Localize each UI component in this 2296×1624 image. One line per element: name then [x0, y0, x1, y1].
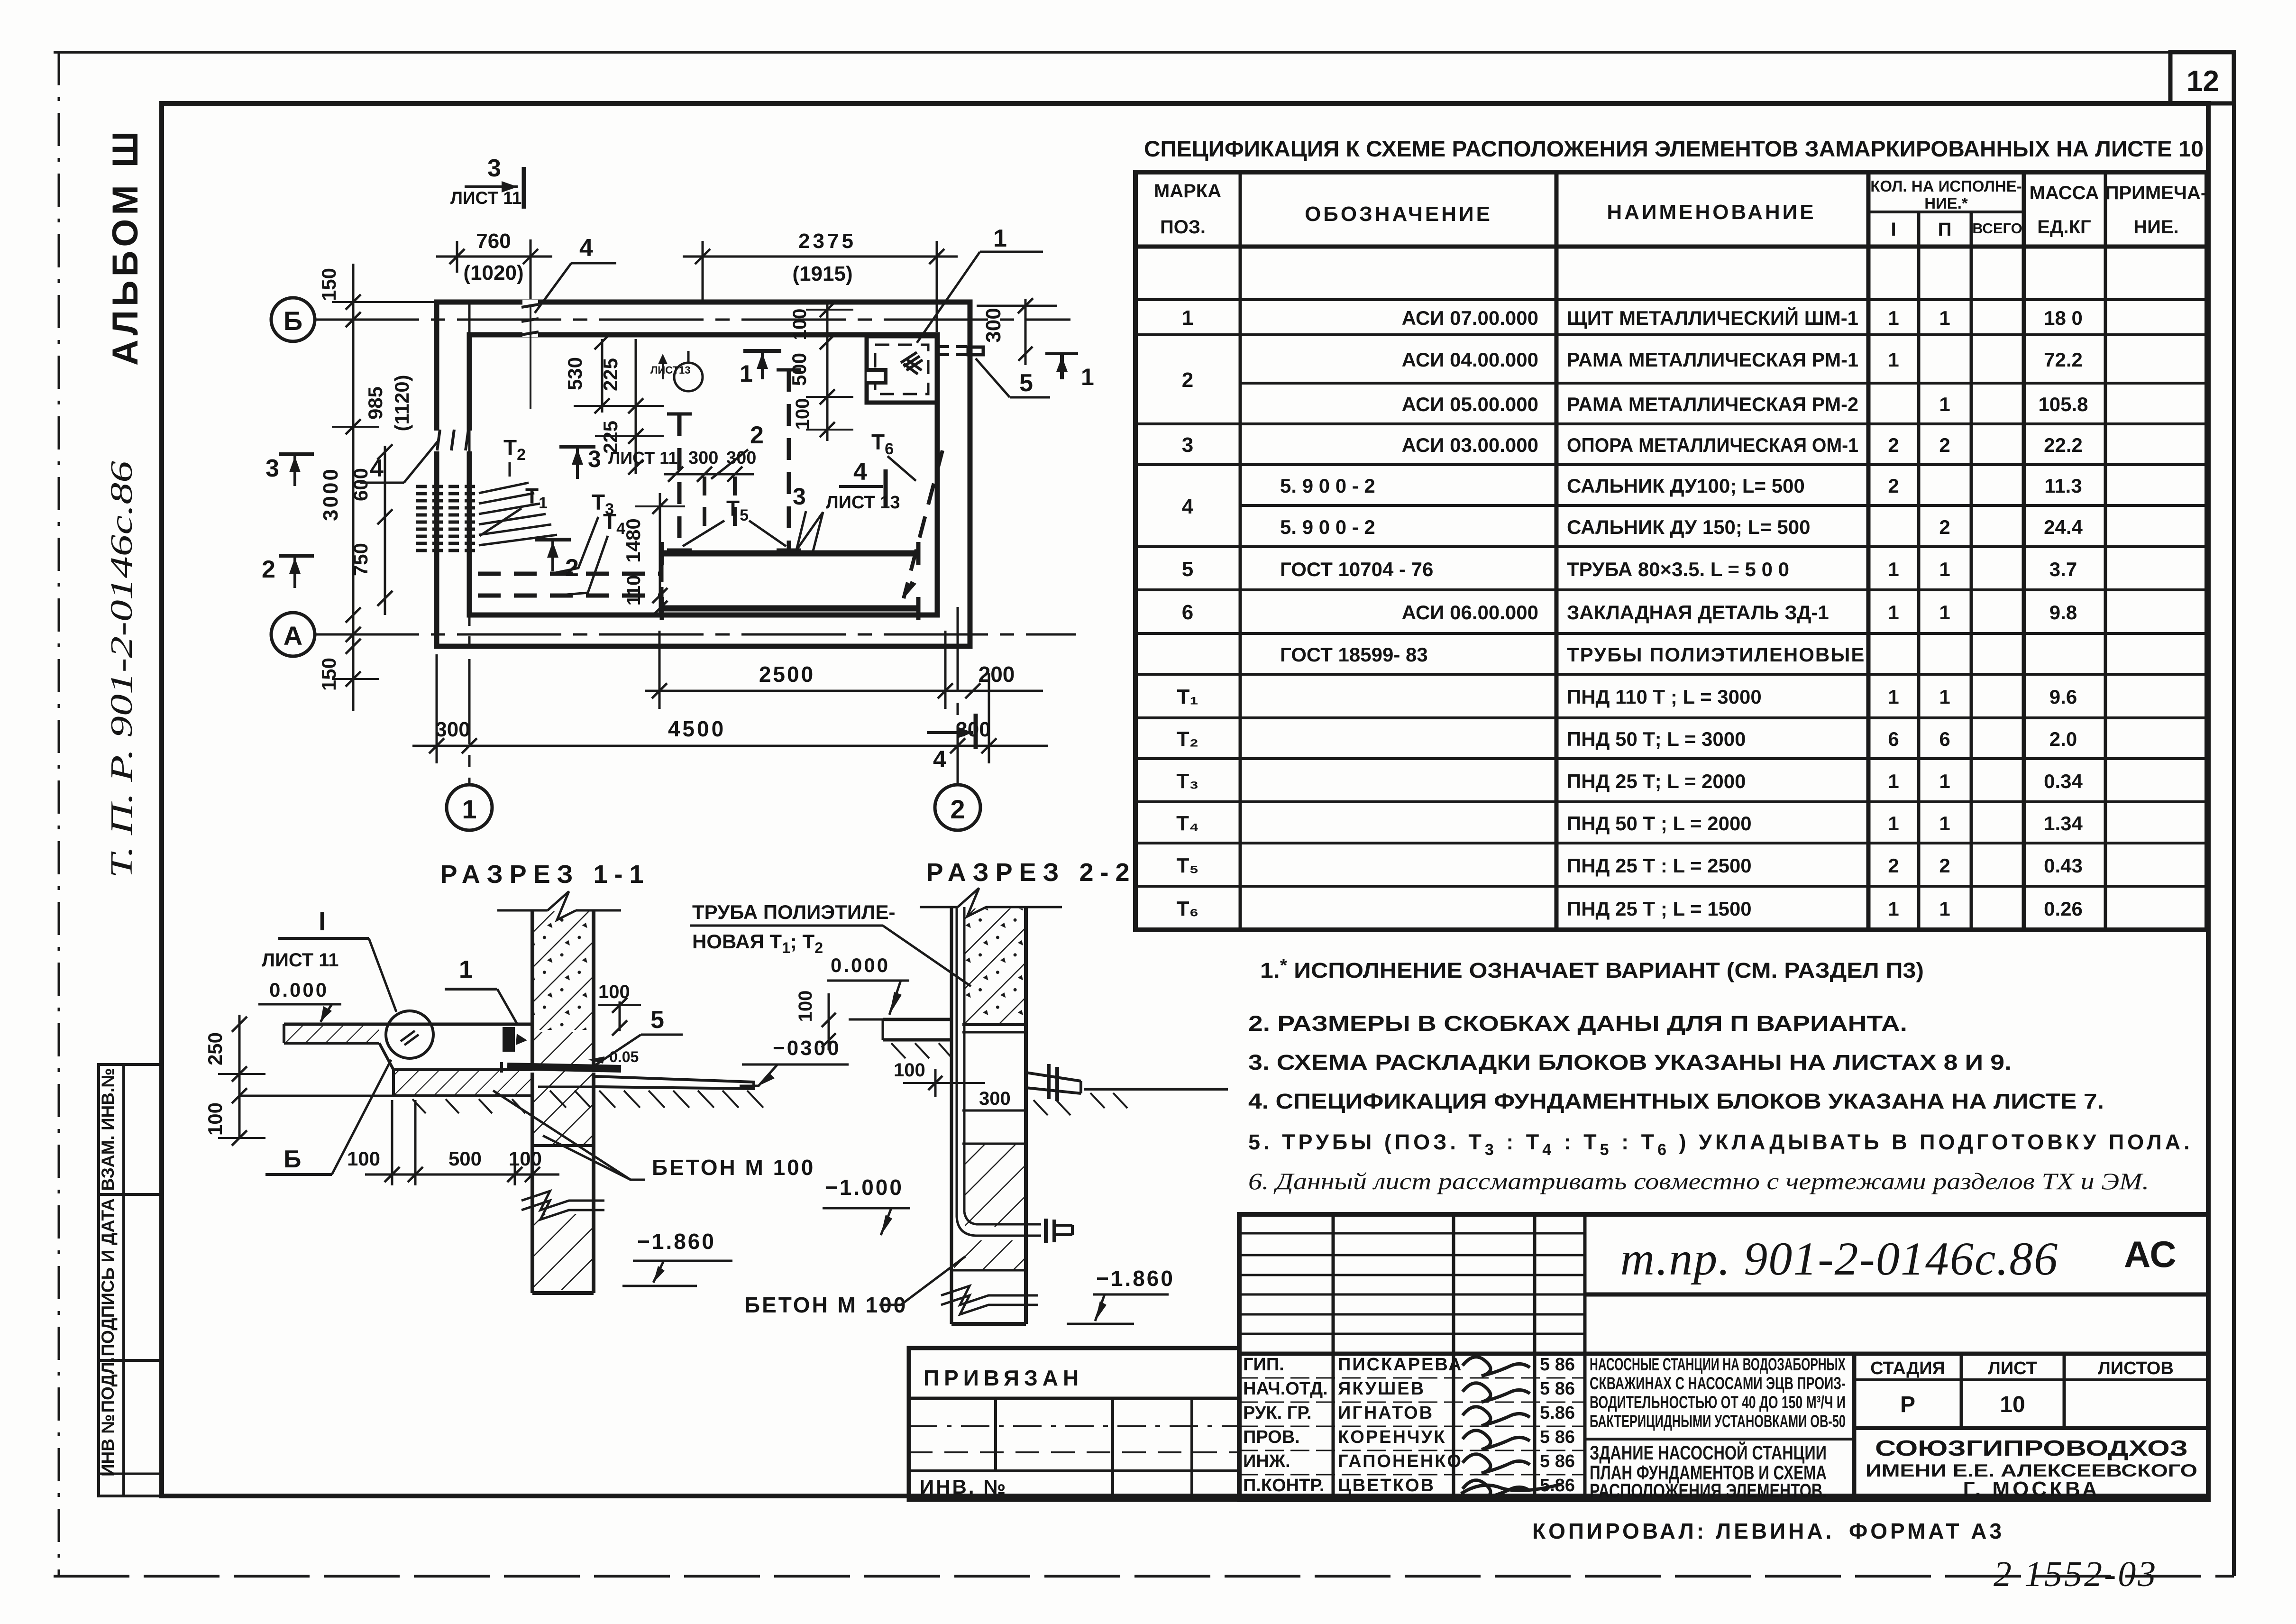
svg-text:2: 2	[1939, 854, 1950, 877]
svg-text:ПОЗ.: ПОЗ.	[1160, 217, 1206, 238]
opening extension line	[530, 306, 531, 409]
svg-text:4500: 4500	[668, 716, 726, 741]
svg-text:100: 100	[792, 398, 813, 430]
sheet number box	[2170, 52, 2234, 103]
svg-text:300: 300	[726, 448, 756, 468]
pipe flange bottom	[1044, 1219, 1048, 1243]
svg-text:5 86: 5 86	[1540, 1427, 1575, 1447]
dim 100 500 100 bottom	[391, 1100, 393, 1185]
page outer border right	[2232, 52, 2236, 1576]
svg-text:4: 4	[933, 746, 946, 772]
svg-text:2. РАЗМЕРЫ В СКОБКАХ ДАНЫ ДЛЯ: 2. РАЗМЕРЫ В СКОБКАХ ДАНЫ ДЛЯ П ВАРИАНТА…	[1248, 1011, 1907, 1036]
section 2-2 concrete hatch top	[965, 908, 1025, 1023]
svg-text:300: 300	[435, 718, 470, 741]
section 2-2 floor level lines inside column	[962, 1023, 1026, 1026]
svg-text:5.86: 5.86	[1540, 1403, 1575, 1423]
svg-text:3: 3	[588, 446, 601, 472]
section 2-2 floor left	[883, 1018, 951, 1021]
svg-text:Г. МОСКВА: Г. МОСКВА	[1963, 1477, 2100, 1501]
section 1-1 column top break	[497, 909, 548, 912]
svg-text:5: 5	[650, 1006, 664, 1034]
section 2-2 top break	[920, 906, 958, 908]
panel ShchM-1 outer	[867, 336, 937, 403]
svg-text:ПРИВЯЗАН: ПРИВЯЗАН	[924, 1366, 1083, 1390]
pipe T5 right dashed vertical	[787, 370, 791, 550]
axis 2 line	[957, 607, 959, 785]
outlet pipe stub right	[1026, 1073, 1081, 1081]
svg-text:6. Данный лист рассматривать: 6. Данный лист рассматривать совместно с…	[1248, 1168, 2149, 1194]
section 1-1 column break symbol	[521, 1191, 604, 1210]
svg-text:9.8: 9.8	[2049, 601, 2077, 624]
svg-text:1: 1	[740, 360, 753, 387]
svg-text:НАСОСНЫЕ СТАНЦИИ НА ВОДОЗАБОРН: НАСОСНЫЕ СТАНЦИИ НА ВОДОЗАБОРНЫХ	[1590, 1355, 1846, 1374]
svg-text:0.05: 0.05	[609, 1048, 639, 1065]
svg-text:ПНД 25 Т ; L = 1500: ПНД 25 Т ; L = 1500	[1567, 898, 1752, 920]
svg-text:ЦВЕТКОВ: ЦВЕТКОВ	[1338, 1476, 1435, 1496]
page outer border bottom (dashed)	[54, 1575, 2234, 1578]
svg-text:6: 6	[1939, 728, 1950, 750]
svg-text:ПНД 50 Т; L = 3000: ПНД 50 Т; L = 3000	[1567, 728, 1746, 750]
stamp strip divider	[122, 1064, 125, 1496]
svg-text:РАЗРЕЗ 2-2: РАЗРЕЗ 2-2	[926, 858, 1136, 887]
ground line right 2-2	[1084, 1088, 1228, 1091]
soil ticks under footing	[412, 1099, 426, 1113]
svg-text:Т₃: Т₃	[1176, 770, 1198, 793]
section 1-1 column walls	[531, 910, 534, 1065]
svg-text:Т. П. Р. 901-2-0146с.86: Т. П. Р. 901-2-0146с.86	[104, 461, 139, 878]
section 2-2 pipe elbow	[957, 1217, 1041, 1236]
ground hatch under outdoor slab	[550, 1091, 566, 1108]
svg-text:1.34: 1.34	[2044, 812, 2083, 835]
svg-text:0.43: 0.43	[2044, 854, 2083, 877]
svg-text:2375: 2375	[798, 229, 856, 253]
svg-text:750: 750	[349, 543, 372, 576]
svg-text:КОПИРОВАЛ: ЛЕВИНА.: КОПИРОВАЛ: ЛЕВИНА.	[1532, 1519, 1834, 1543]
svg-text:24.4: 24.4	[2044, 516, 2083, 538]
section 1-1 floor top line	[284, 1023, 532, 1026]
svg-text:1: 1	[1888, 770, 1899, 792]
section 1-1 masonry hatch lower	[534, 1032, 592, 1146]
title block outer	[1239, 1214, 2208, 1500]
section 2-2 masonry hatch below elbow	[954, 1240, 1025, 1270]
svg-text:СТАДИЯ: СТАДИЯ	[1870, 1358, 1945, 1378]
svg-text:ВЗАМ. ИНВ.№: ВЗАМ. ИНВ.№	[98, 1068, 118, 1191]
privyazan table	[909, 1348, 1239, 1500]
svg-text:А: А	[284, 621, 302, 651]
svg-text:Б: Б	[284, 306, 302, 336]
svg-text:500: 500	[448, 1147, 482, 1170]
detail circle I	[386, 1011, 433, 1058]
section 1-1 concrete hatch upper	[534, 911, 592, 1030]
svg-text:1: 1	[1939, 601, 1950, 624]
svg-text:3.7: 3.7	[2049, 558, 2077, 580]
stage header underline	[1854, 1378, 2208, 1381]
svg-text:ЩИТ МЕТАЛЛИЧЕСКИЙ ШМ-1: ЩИТ МЕТАЛЛИЧЕСКИЙ ШМ-1	[1567, 306, 1858, 329]
svg-text:2: 2	[1939, 434, 1950, 456]
svg-text:Т₅: Т₅	[1176, 854, 1198, 877]
axis A circle	[271, 613, 315, 656]
svg-text:РАЗРЕЗ 1-1: РАЗРЕЗ 1-1	[440, 860, 650, 889]
svg-text:5 86: 5 86	[1540, 1379, 1575, 1399]
soil hatch under floor	[891, 1043, 906, 1058]
outdoor slab right (tapering)	[595, 1076, 754, 1089]
svg-text:АСИ 04.00.000: АСИ 04.00.000	[1402, 349, 1538, 371]
description divider	[1585, 1438, 1854, 1440]
svg-text:3000: 3000	[319, 467, 342, 521]
svg-text:200: 200	[979, 662, 1015, 687]
svg-text:ВСЕГО: ВСЕГО	[1972, 220, 2022, 237]
svg-text:100: 100	[789, 309, 810, 340]
short dashed vertical at 1550	[733, 477, 737, 531]
pipe stub outside wall	[968, 347, 983, 355]
svg-text:600: 600	[349, 468, 372, 501]
svg-text:72.2: 72.2	[2044, 349, 2083, 371]
stamp row line 3	[99, 1473, 162, 1475]
svg-text:22.2: 22.2	[2044, 434, 2083, 456]
signature squiggles	[1463, 1357, 1530, 1376]
svg-text:250: 250	[204, 1032, 226, 1065]
section marker 3 list11 inside	[559, 445, 595, 449]
doc number box divider	[1585, 1293, 2208, 1297]
pipe T6 dashed diagonal	[904, 450, 942, 598]
svg-text:1: 1	[1939, 558, 1950, 580]
svg-text:ЛИСТ 11: ЛИСТ 11	[608, 448, 677, 468]
svg-text:АЛЬБОМ Ш: АЛЬБОМ Ш	[105, 128, 146, 366]
svg-text:2: 2	[262, 556, 275, 583]
svg-text:0.000: 0.000	[269, 979, 329, 1001]
plan outer wall	[437, 302, 970, 646]
svg-text:ОБОЗНАЧЕНИЕ: ОБОЗНАЧЕНИЕ	[1305, 202, 1492, 226]
svg-text:2: 2	[750, 422, 764, 449]
svg-text:СКВАЖИНАХ С НАСОСАМИ ЭЦВ ПРОИЗ: СКВАЖИНАХ С НАСОСАМИ ЭЦВ ПРОИЗ-	[1590, 1374, 1846, 1393]
dashed stub to wall	[938, 345, 967, 348]
svg-text:2: 2	[1939, 516, 1950, 538]
svg-text:4: 4	[579, 234, 593, 262]
svg-text:10: 10	[2000, 1392, 2025, 1417]
svg-text:ГОСТ 18599- 83: ГОСТ 18599- 83	[1280, 643, 1428, 666]
svg-text:ТРУБА ПОЛИЭТИЛЕ-: ТРУБА ПОЛИЭТИЛЕ-	[692, 901, 896, 923]
step down to pit	[379, 1043, 532, 1070]
svg-text:ТРУБА 80×3.5. L = 5 0 0: ТРУБА 80×3.5. L = 5 0 0	[1567, 558, 1789, 580]
svg-text:1: 1	[459, 956, 473, 983]
svg-text:0.26: 0.26	[2044, 898, 2083, 920]
svg-text:ИНВ № ПОДЛ.: ИНВ № ПОДЛ.	[98, 1357, 118, 1477]
svg-text:150: 150	[318, 268, 340, 301]
title block verticals	[1332, 1214, 1335, 1500]
svg-text:1: 1	[1939, 393, 1950, 415]
dim 760 (1020)	[456, 241, 458, 273]
svg-text:1: 1	[1939, 686, 1950, 708]
svg-text:2: 2	[565, 554, 579, 582]
svg-text:2: 2	[1888, 475, 1899, 497]
svg-text:1: 1	[1888, 558, 1899, 580]
svg-text:П: П	[1938, 219, 1952, 240]
dim 2500 200	[659, 631, 661, 709]
top wall opening gap	[522, 300, 538, 337]
ground line left of footing	[239, 1095, 393, 1097]
svg-text:1: 1	[1888, 812, 1899, 835]
svg-text:САЛЬНИК ДУ 150; L= 500: САЛЬНИК ДУ 150; L= 500	[1567, 516, 1811, 538]
svg-text:225: 225	[599, 358, 622, 391]
dims 250 100 left rotated	[238, 1015, 241, 1138]
svg-text:0.000: 0.000	[831, 954, 890, 976]
svg-text:ГОСТ 10704 - 76: ГОСТ 10704 - 76	[1280, 558, 1433, 580]
svg-text:0.34: 0.34	[2044, 770, 2083, 792]
svg-text:1: 1	[993, 225, 1007, 252]
svg-text:100: 100	[894, 1060, 925, 1081]
svg-text:105.8: 105.8	[2038, 393, 2088, 415]
svg-text:ОПОРА МЕТАЛЛИЧЕСКАЯ ОМ-1: ОПОРА МЕТАЛЛИЧЕСКАЯ ОМ-1	[1567, 434, 1858, 456]
svg-text:530: 530	[564, 357, 586, 390]
drawing frame	[162, 103, 2208, 1496]
svg-text:ЛИСТ 11: ЛИСТ 11	[262, 950, 339, 971]
svg-text:1: 1	[1939, 812, 1950, 835]
svg-text:П.КОНТР.: П.КОНТР.	[1243, 1476, 1324, 1496]
svg-text:ПНД 25 Т : L = 2500: ПНД 25 Т : L = 2500	[1567, 854, 1752, 877]
svg-text:ЛИСТ13: ЛИСТ13	[650, 364, 691, 376]
svg-text:5. 9 0 0 - 2: 5. 9 0 0 - 2	[1280, 516, 1375, 538]
pipe T5 left dashed vertical	[677, 414, 682, 550]
svg-text:ИНВ. №: ИНВ. №	[920, 1476, 1007, 1498]
svg-text:ГИП.: ГИП.	[1243, 1355, 1284, 1375]
svg-text:100: 100	[204, 1102, 226, 1136]
svg-text:ЛИСТ: ЛИСТ	[1988, 1358, 2037, 1378]
svg-text:НАЧ.ОТД.: НАЧ.ОТД.	[1243, 1379, 1328, 1399]
left dim chain outer	[352, 264, 355, 711]
svg-text:300: 300	[979, 1088, 1011, 1109]
svg-text:ТРУБЫ ПОЛИЭТИЛЕНОВЫЕ: ТРУБЫ ПОЛИЭТИЛЕНОВЫЕ	[1567, 643, 1865, 666]
dim 300 4500 300	[436, 654, 438, 763]
svg-text:I: I	[319, 906, 326, 936]
svg-text:ЛИСТ 13: ЛИСТ 13	[826, 493, 900, 513]
svg-text:ИГНАТОВ: ИГНАТОВ	[1338, 1403, 1434, 1423]
svg-text:РАСПОЛОЖЕНИЯ ЭЛЕМЕНТОВ.: РАСПОЛОЖЕНИЯ ЭЛЕМЕНТОВ.	[1590, 1479, 1827, 1502]
svg-text:АСИ 06.00.000: АСИ 06.00.000	[1402, 601, 1538, 624]
floor slab hatched band left	[284, 1042, 379, 1045]
spec table outer	[1135, 172, 2207, 930]
sleeve pipe plate through wall	[507, 1066, 621, 1069]
spec table column lines	[1239, 172, 1242, 930]
section marker 2 inside	[535, 538, 571, 541]
svg-text:ПНД 25 Т; L = 2000: ПНД 25 Т; L = 2000	[1567, 770, 1746, 792]
pipe T4 dashed	[478, 594, 660, 598]
svg-text:1: 1	[1939, 898, 1950, 920]
title block left grid rows	[1239, 1232, 1585, 1235]
svg-text:3: 3	[487, 155, 501, 182]
left dim chain inner	[384, 446, 386, 615]
svg-text:5: 5	[1019, 369, 1033, 397]
svg-text:МАССА: МАССА	[2030, 183, 2099, 203]
svg-text:3: 3	[265, 455, 279, 482]
svg-text:3. СХЕМА РАСКЛАДКИ БЛОКОВ УКА: 3. СХЕМА РАСКЛАДКИ БЛОКОВ УКАЗАНЫ НА ЛИС…	[1248, 1050, 2012, 1074]
plan inner wall	[469, 335, 937, 615]
svg-text:ПРИМЕЧА-: ПРИМЕЧА-	[2105, 183, 2207, 203]
axis B circle	[271, 298, 315, 341]
svg-text:100: 100	[795, 991, 816, 1022]
svg-text:2: 2	[1888, 854, 1899, 877]
svg-text:Т₁: Т₁	[1177, 685, 1198, 708]
svg-text:НИЕ.*: НИЕ.*	[1924, 194, 1968, 212]
pipe T3 dashed	[478, 572, 660, 576]
section 1-1 line across column	[532, 1144, 594, 1147]
svg-text:НОВАЯ Т1; Т2: НОВАЯ Т1; Т2	[692, 930, 823, 956]
top wall opening slashes	[521, 304, 539, 307]
svg-text:760: 760	[476, 229, 511, 253]
svg-text:3: 3	[793, 483, 806, 510]
svg-text:−1.860: −1.860	[1096, 1266, 1175, 1291]
panel scribble	[901, 352, 923, 374]
svg-text:НАИМЕНОВАНИЕ: НАИМЕНОВАНИЕ	[1607, 201, 1816, 224]
svg-text:РУК. ГР.: РУК. ГР.	[1243, 1403, 1312, 1423]
svg-text:4. СПЕЦИФИКАЦИЯ ФУНДАМЕНТНЫХ Б: 4. СПЕЦИФИКАЦИЯ ФУНДАМЕНТНЫХ БЛОКОВ УКАЗ…	[1248, 1089, 2104, 1113]
svg-text:1: 1	[1888, 601, 1899, 624]
svg-text:ГАПОНЕНКО: ГАПОНЕНКО	[1338, 1451, 1463, 1471]
pipes bundle through left wall (hatch block)	[416, 485, 480, 488]
section 2-2 pipe vertical	[956, 907, 958, 1217]
svg-text:СПЕЦИФИКАЦИЯ К СХЕМЕ РАСПОЛ: СПЕЦИФИКАЦИЯ К СХЕМЕ РАСПОЛОЖЕНИЯ ЭЛЕМЕН…	[1144, 136, 2204, 161]
svg-text:ПИСКАРЕВА: ПИСКАРЕВА	[1338, 1355, 1463, 1375]
svg-text:100: 100	[509, 1147, 542, 1170]
svg-text:1: 1	[1939, 770, 1950, 792]
svg-text:300: 300	[688, 448, 718, 468]
svg-text:300: 300	[982, 308, 1005, 342]
floor-column junction detail	[503, 1027, 515, 1052]
section mark 1 right	[1045, 352, 1078, 355]
svg-text:ПНД 110 Т ; L = 3000: ПНД 110 Т ; L = 3000	[1567, 686, 1762, 708]
svg-text:18 0: 18 0	[2044, 307, 2083, 329]
panel notch	[867, 370, 886, 383]
svg-text:12: 12	[2186, 65, 2219, 98]
panel inner dashed	[875, 345, 928, 394]
svg-text:11.3: 11.3	[2044, 475, 2082, 497]
section 2-2 masonry hatch mid	[965, 1144, 1025, 1227]
svg-text:КОРЕНЧУК: КОРЕНЧУК	[1338, 1427, 1446, 1447]
svg-text:5 86: 5 86	[1540, 1451, 1575, 1471]
svg-text:2 1552-03: 2 1552-03	[1994, 1554, 2158, 1594]
svg-text:ЛИСТОВ: ЛИСТОВ	[2098, 1358, 2174, 1378]
svg-text:ИНЖ.: ИНЖ.	[1243, 1451, 1290, 1471]
svg-text:БАКТЕРИЦИДНЫМИ УСТАНОВКАМИ ОВ-: БАКТЕРИЦИДНЫМИ УСТАНОВКАМИ ОВ-50	[1590, 1412, 1846, 1431]
stamp row line 1	[99, 1193, 162, 1196]
svg-text:Т₆: Т₆	[1177, 897, 1199, 920]
svg-text:−1.860: −1.860	[637, 1229, 716, 1254]
svg-text:РАМА МЕТАЛЛИЧЕСКАЯ РМ-1: РАМА МЕТАЛЛИЧЕСКАЯ РМ-1	[1567, 349, 1858, 371]
svg-text:Т₂: Т₂	[1177, 727, 1198, 751]
svg-text:150: 150	[318, 658, 340, 691]
svg-text:ЕД.КГ: ЕД.КГ	[2037, 217, 2091, 238]
svg-text:1: 1	[1888, 307, 1899, 329]
header sub divider	[1868, 211, 2024, 213]
svg-text:−1.000: −1.000	[825, 1175, 904, 1200]
svg-text:(1915): (1915)	[792, 262, 852, 285]
svg-text:4: 4	[370, 455, 384, 482]
svg-text:Б: Б	[284, 1146, 301, 1173]
dim 100 rotated 2-2	[828, 993, 830, 1050]
spec table row lines	[1135, 298, 2207, 301]
axis 1 line	[468, 303, 471, 785]
svg-text:110: 110	[623, 575, 644, 606]
spec table header bottom	[1135, 245, 2207, 249]
axis 1 circle	[447, 785, 492, 830]
svg-text:НИЕ.: НИЕ.	[2133, 217, 2178, 238]
dim 530 225 225	[601, 339, 604, 413]
svg-text:Т₄: Т₄	[1176, 812, 1199, 835]
svg-text:ФОРМАТ А3: ФОРМАТ А3	[1849, 1519, 2004, 1543]
foundation bar upper	[662, 551, 918, 557]
axis B line	[315, 319, 1070, 321]
svg-text:5: 5	[1182, 558, 1193, 581]
svg-text:1: 1	[1182, 306, 1193, 330]
svg-text:6: 6	[1888, 728, 1899, 750]
dim 300 vertical right	[1025, 299, 1027, 365]
signature row lines (thin)	[1239, 1377, 1585, 1379]
svg-text:1: 1	[1888, 898, 1899, 920]
svg-text:6: 6	[1182, 601, 1193, 624]
svg-text:4: 4	[853, 458, 867, 486]
svg-text:ПОДПИСЬ И ДАТА: ПОДПИСЬ И ДАТА	[98, 1198, 118, 1356]
svg-text:1: 1	[1081, 364, 1094, 390]
left stamp strip	[99, 1064, 162, 1496]
section 2-2 break symbol	[941, 1286, 1038, 1305]
section 2-2 inner lines	[962, 1110, 1026, 1112]
svg-text:2: 2	[1182, 368, 1193, 392]
stage value underline	[1854, 1426, 2208, 1430]
svg-text:500: 500	[788, 353, 810, 386]
svg-text:Р: Р	[1900, 1392, 1915, 1417]
svg-text:ЯКУШЕВ: ЯКУШЕВ	[1338, 1379, 1425, 1399]
svg-text:РАМА МЕТАЛЛИЧЕСКАЯ РМ-2: РАМА МЕТАЛЛИЧЕСКАЯ РМ-2	[1567, 393, 1858, 415]
left wall opening slashes	[437, 430, 440, 450]
svg-text:5. 9 0 0 - 2: 5. 9 0 0 - 2	[1280, 475, 1375, 497]
svg-text:2.0: 2.0	[2049, 728, 2077, 750]
svg-text:2: 2	[1888, 434, 1899, 456]
svg-text:1.* ИСПОЛНЕНИЕ ОЗНАЧАЕТ ВАРИАН: 1.* ИСПОЛНЕНИЕ ОЗНАЧАЕТ ВАРИАНТ (СМ. РАЗ…	[1260, 955, 1924, 982]
svg-text:9.6: 9.6	[2049, 686, 2077, 708]
section 2-2 column walls	[950, 907, 953, 1324]
svg-text:5 86: 5 86	[1540, 1355, 1575, 1375]
stamp row line 2	[99, 1359, 162, 1362]
page outer border top	[54, 51, 2234, 54]
pipe bundle fan lines	[479, 483, 529, 493]
page outer border left (dash-dot)	[58, 52, 60, 1576]
svg-text:ВОДИТЕЛЬНОСТЬЮ ОТ 40 ДО 150 М³: ВОДИТЕЛЬНОСТЬЮ ОТ 40 ДО 150 М³/Ч И	[1590, 1393, 1846, 1412]
left wall opening gap	[434, 431, 472, 451]
svg-text:АС: АС	[2124, 1233, 2177, 1275]
svg-text:АСИ 03.00.000: АСИ 03.00.000	[1402, 434, 1538, 456]
svg-text:САЛЬНИК ДУ100; L= 500: САЛЬНИК ДУ100; L= 500	[1567, 475, 1805, 497]
svg-text:I: I	[1891, 219, 1896, 240]
svg-text:1: 1	[1888, 349, 1899, 371]
svg-text:1: 1	[462, 794, 476, 824]
svg-text:ЗДАНИЕ НАСОСНОЙ СТАНЦИИ: ЗДАНИЕ НАСОСНОЙ СТАНЦИИ	[1590, 1441, 1827, 1464]
svg-text:1: 1	[1939, 307, 1950, 329]
svg-text:(1020): (1020)	[463, 261, 523, 284]
svg-text:ЗАКЛАДНАЯ ДЕТАЛЬ ЗД-1: ЗАКЛАДНАЯ ДЕТАЛЬ ЗД-1	[1567, 601, 1829, 624]
dim 100 500 100 vertical right-mid	[826, 303, 829, 441]
slope mark 0.05	[588, 1056, 604, 1064]
svg-text:ЛИСТ 11: ЛИСТ 11	[450, 188, 521, 208]
dim 2375 (1915)	[702, 241, 704, 303]
svg-text:4: 4	[1182, 495, 1194, 518]
svg-text:2: 2	[950, 794, 965, 824]
section marker 1 mid	[743, 349, 781, 353]
svg-text:АСИ 07.00.000: АСИ 07.00.000	[1402, 307, 1538, 329]
svg-text:3: 3	[1182, 433, 1193, 457]
svg-text:2500: 2500	[759, 662, 815, 687]
svg-text:1: 1	[1888, 686, 1899, 708]
header band line	[1239, 1352, 2208, 1356]
dim 1480 110 vertical	[659, 493, 661, 616]
